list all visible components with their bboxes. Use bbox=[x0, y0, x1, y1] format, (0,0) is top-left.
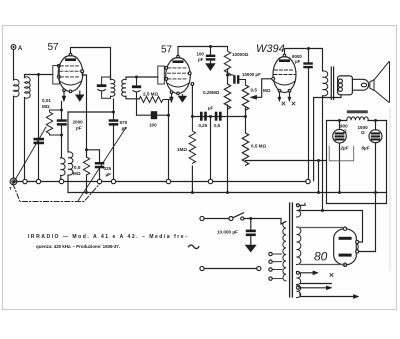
100 pF cap plates bbox=[206, 55, 216, 61]
switch lever bbox=[233, 213, 244, 218]
svg-text:IRRADIO — Mod. A 41 e A 42. –: IRRADIO — Mod. A 41 e A 42. – Media fre- bbox=[28, 234, 188, 240]
OT primary coil bbox=[323, 71, 328, 96]
wire padder to bus bbox=[99, 168, 101, 179]
AVC wire through 100 bbox=[137, 114, 169, 116]
label 025 µF bbox=[104, 166, 112, 177]
node secondary cap top bbox=[135, 76, 138, 79]
resistor 100 block bbox=[151, 111, 157, 119]
HT to plate wires bbox=[300, 226, 345, 229]
svg-text:pF: pF bbox=[295, 59, 301, 64]
speaker magnet block bbox=[338, 76, 353, 95]
capacitor 570 pF plates bbox=[109, 119, 119, 125]
svg-text:80: 80 bbox=[314, 250, 328, 264]
node bbox=[85, 191, 88, 194]
ground arrow bbox=[245, 245, 256, 252]
IF1 secondary top rail to V2 grid bbox=[126, 77, 158, 80]
switch contact 2 bbox=[241, 217, 244, 220]
V1 cathode pin arrow bbox=[63, 92, 65, 97]
10000 pF wires bbox=[228, 75, 246, 85]
cap 0.25 µF plates bbox=[200, 112, 207, 121]
AF grid resistor 0.5 MΩ zigzag bbox=[242, 117, 248, 166]
svg-text:2000: 2000 bbox=[73, 120, 84, 125]
filament winding B bbox=[296, 285, 300, 298]
svg-text:0,5: 0,5 bbox=[74, 165, 81, 170]
node on ground bus bbox=[111, 179, 115, 183]
label 8000 pF bbox=[292, 54, 302, 64]
wire caps midpoint to chassis bbox=[210, 117, 212, 180]
wire to switch bbox=[204, 218, 229, 220]
svg-text:2,5 MΩ: 2,5 MΩ bbox=[143, 92, 158, 97]
field B+ wire right bbox=[386, 121, 388, 204]
terminal A bbox=[11, 45, 16, 50]
oscillator coil L4 bbox=[68, 152, 73, 175]
V1 top cap pin bbox=[69, 53, 72, 56]
HT secondary winding bbox=[296, 227, 300, 265]
8µF wires bbox=[375, 121, 377, 252]
node on ground bus bbox=[59, 179, 63, 183]
svg-text:8µF: 8µF bbox=[362, 146, 370, 151]
padder capacitor plates bbox=[95, 162, 105, 168]
node bbox=[321, 209, 324, 212]
node screen line / padder stub bbox=[85, 148, 88, 151]
power transformer core bbox=[290, 203, 293, 297]
node caps midpoint bbox=[209, 115, 212, 118]
node bbox=[191, 191, 194, 194]
V2 plate wire to 100pF/10000 bbox=[178, 47, 228, 56]
node bbox=[60, 134, 63, 137]
V1 grid dashed electrodes bbox=[60, 66, 81, 77]
100pF wires + ground arrow bbox=[210, 47, 212, 64]
node bbox=[226, 74, 229, 77]
V1 screen side wire down bbox=[82, 73, 86, 157]
antenna coil L2 (secondary) bbox=[25, 77, 31, 98]
variable capacitor C1 plates bbox=[34, 138, 45, 144]
electrolytic 8 µF bbox=[369, 130, 382, 143]
svg-text:57: 57 bbox=[48, 42, 60, 53]
wire pot bottom to AF row bbox=[245, 107, 247, 117]
line cap wires bbox=[250, 219, 252, 246]
screen resistor 0.25 MΩ zigzag bbox=[224, 84, 230, 109]
wire IF can to junction bbox=[113, 99, 115, 112]
bottom field link wire bbox=[327, 203, 387, 205]
tone cap 8000 pF plates bbox=[303, 62, 313, 68]
node chassis end circle bbox=[306, 179, 310, 183]
wire switch to transformer bbox=[244, 219, 281, 225]
speaker neck bbox=[352, 79, 368, 90]
V2 bottom pin circles bbox=[170, 91, 173, 94]
IF1 primary cap link wires bbox=[102, 77, 111, 98]
node on ground bus bbox=[97, 179, 101, 183]
V2 diode pin right bbox=[191, 83, 194, 86]
8000pF wires down to chassis bbox=[308, 49, 310, 180]
V3 top electrode bar bbox=[279, 59, 290, 62]
node on ground bus bbox=[166, 179, 170, 183]
C1 rotor arrow diagonal bbox=[13, 127, 46, 184]
B+ takeoff wire bbox=[359, 251, 376, 253]
B+ bus wire (y=192.5) bbox=[68, 192, 387, 194]
svg-text:10000 pF: 10000 pF bbox=[242, 72, 261, 77]
IF1 secondary bottom rail bbox=[126, 96, 139, 99]
V1 grid box bbox=[53, 66, 60, 85]
rect filament wire top to B+ rail bbox=[299, 204, 305, 206]
wire terminal 2 bbox=[204, 268, 257, 270]
svg-text:570: 570 bbox=[120, 120, 128, 125]
OT secondary bottom return bbox=[314, 95, 341, 181]
IF1 secondary coil bbox=[122, 79, 126, 96]
svg-text:0,5: 0,5 bbox=[251, 88, 258, 93]
svg-text:100: 100 bbox=[197, 52, 205, 57]
padder trimmer wire bbox=[87, 150, 100, 162]
primary tap stubs bbox=[272, 254, 282, 279]
node plate rail bbox=[209, 45, 212, 48]
filament B wires with arrows bbox=[299, 287, 327, 289]
V4 filament side pins bbox=[356, 240, 359, 243]
svg-text:10000Ω: 10000Ω bbox=[232, 52, 249, 57]
terminal T (double circle) bbox=[10, 178, 17, 185]
C2 rotor arrow diagonal (through padder) bbox=[78, 128, 126, 202]
labels 0.25 / 0.5 / µF bbox=[199, 106, 221, 129]
node bbox=[60, 109, 63, 112]
AF coupling row wire bbox=[192, 116, 245, 118]
AF return vertical bbox=[318, 161, 320, 193]
svg-text:quenza: 420 kHz. – Produzione:: quenza: 420 kHz. – Produzione: 1936-37. bbox=[36, 244, 120, 249]
svg-text:0,01: 0,01 bbox=[42, 98, 51, 103]
antenna coil L1 bbox=[14, 79, 20, 96]
V4 side bulge bbox=[356, 244, 358, 251]
svg-text:A: A bbox=[18, 46, 23, 52]
electrolytic 2 µF bbox=[333, 129, 347, 143]
grid leak 2.5 MΩ zigzag bbox=[139, 97, 170, 103]
speaker cone bbox=[374, 61, 389, 102]
line cap 10000µF plates bbox=[246, 230, 256, 237]
speaker gap trapezoid bbox=[370, 80, 374, 91]
svg-text:pF: pF bbox=[76, 126, 82, 131]
svg-text:µF: µF bbox=[106, 172, 112, 177]
x mark bbox=[330, 274, 333, 277]
node bbox=[374, 191, 377, 194]
wire L4 bottom to B+ bus bbox=[67, 175, 69, 193]
mains terminal 1 bbox=[200, 216, 204, 220]
svg-text:10.000 µF: 10.000 µF bbox=[217, 230, 238, 235]
oscillator coil L3 bbox=[61, 158, 66, 176]
secondary cap wires bbox=[136, 77, 138, 115]
page curl shadow right edge bbox=[389, 108, 391, 270]
IF1 primary coil bbox=[111, 79, 115, 96]
node on ground bus bbox=[23, 179, 27, 183]
IF1 primary feed from plate bbox=[110, 74, 112, 80]
wire L2 bottom to bus bbox=[24, 98, 26, 180]
primary winding bbox=[283, 222, 286, 281]
field coil winding bbox=[347, 117, 368, 120]
wire L1 to chassis bbox=[13, 96, 15, 178]
svg-text:1MΩ: 1MΩ bbox=[177, 147, 187, 152]
tube V2 envelope bbox=[166, 58, 191, 94]
plate resistor 10000 Ω zigzag bbox=[224, 47, 230, 77]
winding terminal circles bbox=[296, 204, 299, 207]
tube V1 envelope bbox=[58, 56, 83, 92]
field coil feed wires bbox=[327, 120, 387, 122]
V2 top electrode bar bbox=[173, 60, 184, 63]
ground bus wire (chassis, y=181) bbox=[14, 181, 309, 183]
filament A wires with arrows bbox=[299, 272, 313, 274]
IF1 primary tuning cap bbox=[97, 84, 107, 87]
primary top wire bbox=[281, 222, 286, 225]
svg-text:025: 025 bbox=[104, 166, 112, 171]
V3 top cap pin bbox=[283, 54, 286, 57]
V4 plates bbox=[339, 237, 352, 240]
driver coil circles bbox=[338, 79, 342, 83]
V1 top electrode bar bbox=[65, 58, 76, 61]
terminal end circle bbox=[257, 266, 261, 270]
coupling wire to det bbox=[68, 111, 114, 113]
volume pot 0.5 zigzag bbox=[242, 85, 248, 110]
nodes bbox=[317, 159, 320, 162]
V3 cathode arc bbox=[275, 82, 295, 86]
570pF wires bbox=[113, 112, 115, 179]
svg-text:pF: pF bbox=[198, 57, 204, 62]
V1 cathode arc bbox=[61, 82, 81, 86]
svg-text:57: 57 bbox=[161, 45, 173, 56]
svg-text:0,5: 0,5 bbox=[214, 123, 221, 128]
svg-text:MΩ: MΩ bbox=[42, 104, 50, 109]
switch contact bbox=[229, 217, 233, 221]
coupling cap 10000 pF plates bbox=[233, 75, 239, 84]
node line cap bbox=[249, 217, 252, 220]
OT core bbox=[331, 67, 333, 100]
field return wire left bbox=[326, 121, 328, 204]
V3 grid dashed electrodes bbox=[274, 70, 295, 75]
V2 heater ground arrow bbox=[182, 95, 184, 96]
V3 bottom pin circles bbox=[278, 90, 281, 93]
wire cap vertical bbox=[61, 110, 63, 135]
V2 top cap pin bbox=[177, 55, 180, 58]
wire 0.25 to B+ bus bbox=[227, 105, 229, 193]
V3 grid wire from pot wiper bbox=[252, 79, 272, 98]
mains terminal 2 bbox=[200, 266, 204, 270]
bias cap 2000 pF plates bbox=[57, 119, 67, 125]
V2 cathode pin arrow bbox=[171, 94, 173, 98]
wire screen resistor to B+ bus bbox=[86, 175, 88, 193]
wire 1MΩ to B+ bus bbox=[191, 166, 193, 193]
node 570pF junction bbox=[112, 111, 115, 114]
label 570 pF bbox=[120, 120, 128, 131]
tube V4 envelope bbox=[334, 229, 357, 265]
tube V3 envelope bbox=[273, 57, 296, 93]
svg-text:2µF: 2µF bbox=[340, 146, 349, 151]
filament pin wire to rail bbox=[359, 241, 363, 243]
wire to node bbox=[227, 69, 229, 84]
node junction grid line bbox=[37, 73, 40, 76]
wire cathode to osc coil bbox=[61, 135, 62, 158]
tuning gang dash-dot link bbox=[13, 184, 100, 202]
detector load 1 MΩ zigzag bbox=[189, 117, 195, 164]
label 0.01 MΩ bbox=[42, 98, 51, 109]
2µF wires bbox=[339, 121, 341, 193]
node bbox=[226, 191, 229, 194]
svg-text:W394: W394 bbox=[256, 43, 285, 55]
svg-text:MΩ: MΩ bbox=[73, 171, 81, 176]
label 0.5 MΩ bbox=[73, 165, 81, 176]
V1 cathode wire down bbox=[61, 102, 63, 111]
svg-text:µF: µF bbox=[207, 106, 214, 111]
wire L4 top to coupling line bbox=[67, 112, 69, 152]
V1 plate wire to IF1 bbox=[71, 48, 111, 80]
V2 grid box bbox=[158, 66, 165, 84]
label 100 pF bbox=[197, 52, 205, 63]
node plate rail bbox=[307, 47, 310, 50]
OT primary bottom to rectifier filament rail bbox=[322, 96, 324, 211]
V4 bottom pin bbox=[343, 263, 346, 266]
cap 0.5 µF plates bbox=[215, 112, 222, 121]
node on ground bus bbox=[208, 179, 212, 183]
svg-text:0,5 MΩ: 0,5 MΩ bbox=[251, 144, 266, 149]
field coil core bar bbox=[347, 110, 368, 113]
V4 top pin bbox=[343, 227, 346, 230]
svg-text:pF: pF bbox=[122, 126, 128, 131]
cap block outline bbox=[329, 146, 354, 161]
V1 side pin circles bbox=[57, 65, 60, 68]
V2 cathode line down to chassis bbox=[168, 101, 170, 180]
node on ground bus bbox=[36, 179, 40, 183]
V1 bottom pin circles bbox=[63, 89, 66, 92]
rect filament wire 2 bbox=[300, 211, 363, 243]
V2 grid dashed electrodes bbox=[168, 68, 189, 79]
nodes bbox=[338, 119, 341, 122]
x marks bbox=[282, 102, 295, 105]
screen resistor 0.5 MΩ zigzag bbox=[83, 157, 89, 175]
V2 cathode arc bbox=[168, 84, 188, 88]
diode wire down bbox=[191, 85, 193, 116]
mains tilde bbox=[189, 245, 199, 249]
driver centre ellipse bbox=[361, 83, 366, 87]
svg-text:Ω: Ω bbox=[361, 130, 365, 135]
IF1 secondary tuning cap bbox=[132, 85, 141, 88]
node diode/detector bbox=[191, 115, 194, 118]
svg-text:0,25MΩ: 0,25MΩ bbox=[203, 90, 220, 95]
wire L2 top to grid line bbox=[25, 75, 53, 78]
pot wiper arrow bbox=[252, 96, 257, 98]
V3 plate wire to OT bbox=[285, 49, 323, 72]
svg-text:T: T bbox=[9, 186, 12, 191]
label 2000 pF bbox=[73, 120, 84, 131]
svg-text:100: 100 bbox=[149, 123, 157, 128]
V2 side pin circles bbox=[165, 67, 168, 70]
rect filament winding top bbox=[296, 204, 300, 217]
wire antenna down bbox=[13, 50, 15, 81]
wire tuning cap C1 vertical bbox=[38, 75, 40, 180]
wire 0.5MΩ to field return bbox=[246, 160, 327, 162]
node cathode/AVC junction bbox=[167, 114, 170, 117]
labels 900 Ω / 1500 Ω bbox=[340, 124, 368, 136]
filament winding A bbox=[296, 271, 300, 284]
svg-text:MΩ: MΩ bbox=[263, 88, 271, 93]
node bbox=[244, 115, 247, 118]
wire L3 to bus bbox=[60, 175, 62, 179]
node bbox=[338, 191, 341, 194]
V1 heater ground arrow bbox=[79, 91, 81, 95]
V3 grid pin bbox=[272, 77, 275, 80]
bias resistor 0.01 MΩ bbox=[46, 110, 61, 135]
svg-text:0,25: 0,25 bbox=[199, 123, 208, 128]
V3 filament pins bbox=[280, 92, 290, 97]
tap terminals bbox=[269, 252, 272, 255]
